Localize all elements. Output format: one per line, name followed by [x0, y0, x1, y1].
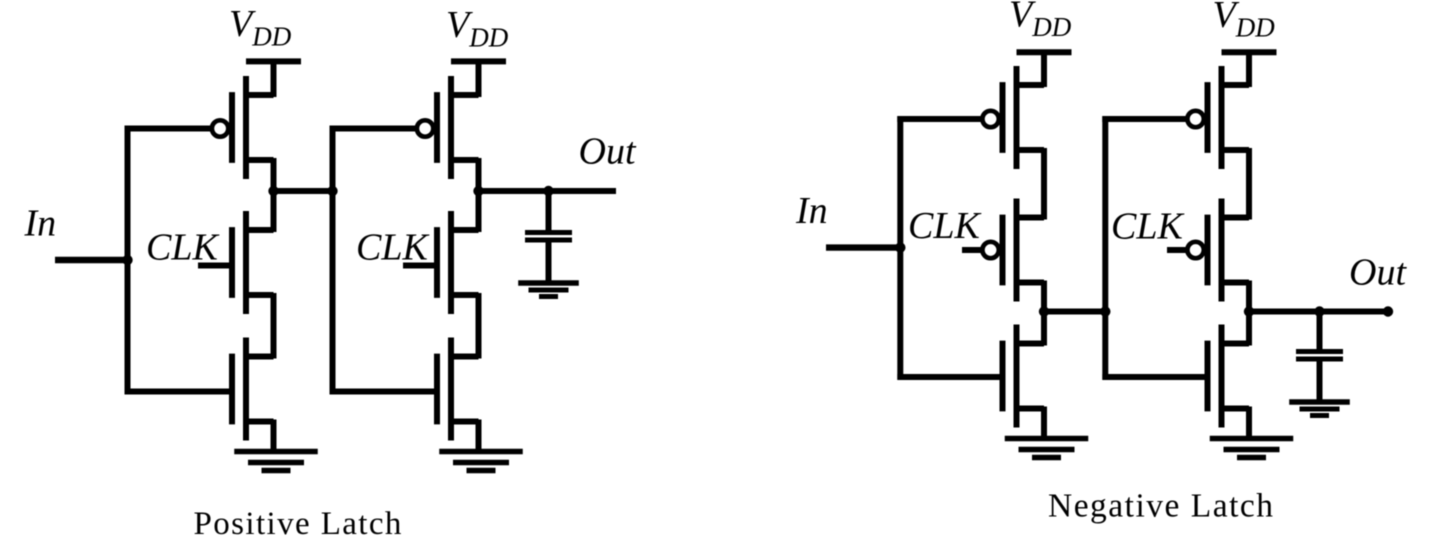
- svg-text:Out: Out: [1349, 252, 1407, 294]
- svg-text:Negative Latch: Negative Latch: [1048, 488, 1275, 525]
- svg-text:Positive Latch: Positive Latch: [194, 506, 403, 542]
- svg-text:In: In: [795, 190, 828, 232]
- svg-text:CLK: CLK: [146, 226, 219, 268]
- svg-text:CLK: CLK: [1111, 206, 1184, 248]
- svg-text:CLK: CLK: [356, 226, 429, 268]
- svg-text:CLK: CLK: [908, 205, 981, 247]
- svg-text:Out: Out: [579, 131, 637, 173]
- svg-text:In: In: [24, 203, 57, 245]
